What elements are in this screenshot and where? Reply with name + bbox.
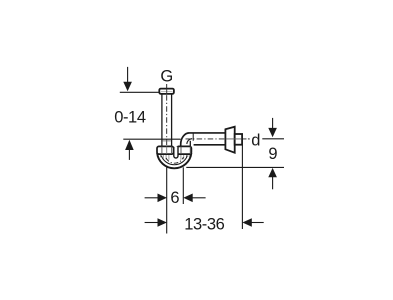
centerline through bell and stub [226, 138, 242, 140]
extension line wall plane [241, 146, 243, 230]
outlet pipe bottom edge [194, 144, 226, 146]
svg-text:0-14: 0-14 [114, 109, 146, 127]
svg-text:13-36: 13-36 [184, 215, 224, 233]
union nut right [177, 146, 192, 154]
dimension 13-36 right arrow [242, 218, 251, 227]
inlet pipe walls [161, 94, 163, 147]
wall stub [235, 134, 242, 145]
svg-text:G: G [160, 68, 173, 86]
dimension 6 right arrow [183, 194, 192, 203]
extension line inlet centerline [166, 167, 168, 233]
elbow inner fillet arc [187, 139, 192, 144]
elbow seam [192, 133, 194, 140]
pipe wall traces inside left nut [161, 147, 163, 154]
dimension 0-14 top reference line [120, 91, 160, 93]
centerline dot before d [248, 138, 250, 140]
outlet centerline (dash-dot) [186, 138, 250, 140]
svg-text:9: 9 [268, 145, 277, 163]
dimension 6 left arrow [145, 197, 158, 199]
dimension 0-14 down arrow [127, 67, 129, 83]
dimension 9 down arrow [272, 118, 274, 129]
inlet pipe flange [159, 89, 174, 94]
pipe wall traces inside right nut [180, 147, 182, 154]
elbow right wall [189, 141, 191, 147]
inner inlet tube between nuts [174, 147, 178, 158]
wall bell flange [225, 127, 234, 153]
inlet pipe centerline [166, 84, 168, 148]
bowl water centerline arc (dash-dot) [166, 157, 183, 163]
svg-text:6: 6 [170, 189, 179, 207]
extension line trap outlet [182, 167, 184, 204]
outlet pipe top edge [189, 132, 225, 134]
dimension 9 top reference line [262, 138, 284, 140]
bowl inner wall arc [161, 156, 187, 165]
svg-text:d: d [251, 131, 260, 149]
dimension 0-14 bottom reference line [123, 138, 180, 140]
inlet pipe telescopic seam [163, 140, 171, 142]
bowl shading hatch [161, 155, 190, 160]
trap bottom reference line [186, 166, 284, 168]
dimension 13-36 left arrow [145, 222, 158, 224]
trap bowl [157, 150, 191, 168]
centerline through flange [166, 89, 168, 94]
dimension 9 up arrow [268, 168, 277, 177]
elbow outer bend [181, 133, 190, 147]
union nut left [157, 146, 174, 154]
dimension 0-14 up arrow [125, 140, 134, 150]
